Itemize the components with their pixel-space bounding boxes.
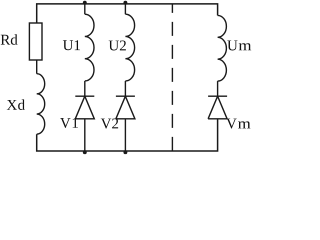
wire bottom bus (37, 119, 218, 151)
inductor U2 (125, 14, 134, 81)
node junction bottom V2 (123, 150, 127, 154)
wire top bus (37, 4, 218, 23)
label V1 (60, 118, 78, 128)
label U1 (63, 40, 80, 50)
inductor Um (218, 15, 227, 81)
node junction top U1 (83, 1, 87, 5)
dashed ellipsis line (171, 4, 173, 151)
diode Vm (208, 96, 227, 119)
diode V1 (75, 96, 94, 119)
wire U2 branch top (124, 4, 126, 14)
label Um (227, 40, 251, 50)
wire U1 branch top (84, 4, 86, 14)
inductor U1 (85, 14, 94, 81)
label Rd (1, 34, 18, 45)
label V2 (101, 118, 118, 128)
inductor Xd (37, 74, 45, 134)
node junction top U2 (123, 1, 127, 5)
resistor Rd (29, 23, 42, 60)
label U2 (109, 40, 126, 50)
wire U1 to V1 (84, 81, 86, 96)
diode V2 (116, 96, 135, 119)
node junction bottom V1 (83, 150, 87, 154)
label Xd (7, 99, 25, 110)
wire Um to Vm (217, 81, 219, 96)
wire V1 to bottom (84, 119, 86, 151)
label Vm (226, 119, 250, 129)
wire U2 to V2 (124, 81, 126, 96)
wire Rd to Xd (36, 60, 38, 74)
wire V2 to bottom (124, 119, 126, 151)
